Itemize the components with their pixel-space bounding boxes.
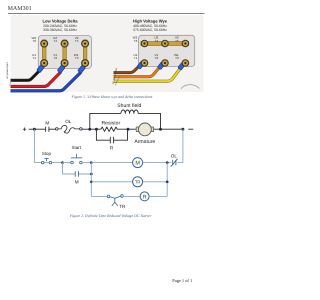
wire TR coil to right bus: [143, 181, 168, 183]
node seal rejoin: [90, 173, 93, 176]
left terminal block: [38, 36, 91, 69]
shunt field branch wire: [90, 113, 121, 129]
svg-text:T1: T1: [134, 56, 138, 60]
node rung2 right: [166, 180, 169, 183]
svg-text:Figure 1. 3-Phase Motor wye an: Figure 1. 3-Phase Motor wye and delta co…: [71, 95, 153, 99]
svg-text:OL: OL: [171, 153, 178, 158]
svg-text:T1: T1: [32, 56, 36, 60]
lug right U1: [137, 61, 144, 69]
svg-text:Figure 2. Definite Time Reduce: Figure 2. Definite Time Reduced Voltage …: [69, 214, 152, 218]
blue wire L3: [11, 72, 81, 90]
wire rung2: [91, 181, 132, 183]
wire plus to M contact: [29, 128, 46, 130]
svg-text:T5: T5: [75, 39, 79, 43]
wire rung1 to M coil: [91, 162, 132, 164]
AC power input label left: [6, 62, 12, 86]
node A stop-start junction: [61, 161, 64, 164]
wire OL to shunt node: [82, 128, 101, 130]
svg-text:M: M: [75, 180, 79, 185]
lug on V1: [57, 65, 65, 73]
left block terminal labels: [32, 36, 79, 60]
coil M: [133, 158, 143, 168]
wire stop to start: [63, 162, 71, 164]
svg-text:T5: T5: [175, 39, 179, 43]
svg-text:Start: Start: [72, 145, 82, 150]
svg-text:TR: TR: [119, 204, 126, 209]
svg-text:Stop: Stop: [42, 151, 52, 156]
svg-text:T2: T2: [155, 56, 159, 60]
yellow wire: [114, 68, 181, 81]
node shunt down: [159, 128, 162, 131]
orange wire: [114, 66, 161, 76]
wire control drop left: [33, 129, 35, 162]
svg-text:330-360VAC, 50-60Hz: 330-360VAC, 50-60Hz: [43, 28, 77, 32]
wire M coil to OL contact: [143, 162, 172, 164]
wire right vertical bus: [166, 163, 168, 197]
contact M seal: [75, 171, 78, 176]
svg-text:OL: OL: [65, 119, 72, 124]
delta link bar column1: [42, 40, 46, 65]
right block terminal labels: [133, 36, 179, 60]
svg-text:T4: T4: [155, 39, 159, 43]
svg-text:R: R: [143, 195, 147, 201]
wire left vertical bus: [90, 163, 92, 197]
delta link bar column2: [63, 40, 67, 65]
brown wire: [114, 65, 140, 72]
node R bypass branch: [95, 128, 98, 131]
M seal branch wires: [63, 163, 92, 174]
node plus terminal: [23, 128, 26, 131]
left block screws bottom row: [40, 59, 89, 67]
svg-text:Page 1 of 1: Page 1 of 1: [172, 278, 192, 283]
AC power input label right: [112, 67, 120, 85]
delta link bar column3: [83, 40, 87, 65]
header rule: [8, 13, 205, 15]
svg-text:TR: TR: [135, 180, 140, 185]
node junction at control drop left: [33, 128, 36, 131]
node rung1 right junction: [166, 161, 169, 164]
OL heater element: [56, 128, 59, 131]
figure 1 background panel: [11, 15, 204, 92]
right block screws top row: [141, 40, 190, 48]
coil R: [140, 192, 149, 201]
wire rung3 left: [91, 195, 107, 197]
svg-text:Shunt field: Shunt field: [117, 103, 141, 109]
motor armature: [139, 123, 152, 136]
wire OL contact to right drop: [177, 162, 183, 164]
wire control drop right: [182, 129, 184, 162]
node shunt branch: [88, 128, 91, 131]
node rung2 left: [90, 180, 93, 183]
svg-text:T3: T3: [175, 56, 179, 60]
svg-text:Armature: Armature: [134, 139, 155, 145]
wire resistor to armature node: [120, 128, 137, 130]
svg-text:T2: T2: [53, 56, 57, 60]
svg-text:T6: T6: [32, 39, 36, 43]
node minus control drop: [181, 128, 184, 131]
wire rung1 left: [34, 162, 62, 164]
decorative curve bottom right of figure 1: [181, 85, 200, 89]
contact TR timed close: [107, 195, 126, 210]
inductor shunt field: [121, 110, 138, 113]
lug on U1: [37, 64, 45, 72]
contact OL normally closed: [171, 159, 178, 167]
wire start to node B: [82, 162, 91, 164]
contact R: [110, 137, 113, 144]
armature brushes: [136, 127, 139, 132]
svg-text:T3: T3: [75, 56, 79, 60]
lug right W1: [178, 62, 185, 70]
wire TR contact to R coil: [124, 195, 140, 197]
right block screws bottom row: [141, 59, 190, 67]
node resistor right: [127, 128, 130, 131]
node B start right junction: [90, 161, 93, 164]
coil TR: [133, 177, 143, 187]
svg-text:AC power input: AC power input: [6, 62, 9, 79]
svg-text:T4: T4: [53, 39, 57, 43]
wire R coil to right bus: [149, 195, 167, 197]
lug on W1: [78, 65, 86, 73]
contact M power: [46, 127, 49, 132]
pushbutton Stop: [41, 151, 51, 164]
resistor R: [101, 127, 120, 131]
svg-text:MAM301: MAM301: [8, 6, 32, 12]
svg-text:Resistor: Resistor: [101, 120, 120, 126]
svg-text:T6: T6: [134, 39, 138, 43]
R bypass contact branch: [96, 129, 127, 140]
wire armature to shunt down node: [154, 128, 183, 130]
wire M contact to OL heater: [49, 128, 56, 130]
pushbutton Start: [71, 145, 82, 164]
black wire L1: [11, 70, 40, 80]
svg-text:High Voltage Wye: High Voltage Wye: [133, 18, 168, 23]
node minus terminal dash: [188, 128, 193, 130]
svg-text:Low Voltage Delta: Low Voltage Delta: [43, 18, 79, 23]
left block screws top row: [40, 40, 89, 48]
right terminal block: [139, 35, 195, 66]
red wire L2: [11, 72, 61, 87]
lug right V1: [157, 62, 164, 70]
svg-text:M: M: [45, 121, 49, 126]
svg-text:575-600VAC, 50-60Hz: 575-600VAC, 50-60Hz: [133, 28, 167, 32]
wye link bar top row: [141, 42, 189, 46]
shunt field branch wire right: [138, 113, 160, 129]
svg-text:M: M: [135, 161, 140, 167]
